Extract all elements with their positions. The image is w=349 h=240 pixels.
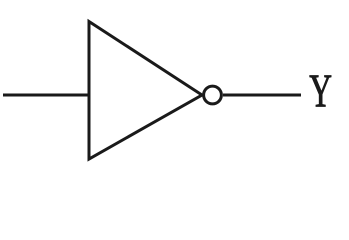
inversion bubble (204, 86, 222, 104)
wire input wire A (3, 94, 89, 97)
node Y output label (310, 76, 332, 107)
NOT gate U1 triangle (89, 22, 202, 160)
wire output wire (223, 94, 301, 97)
